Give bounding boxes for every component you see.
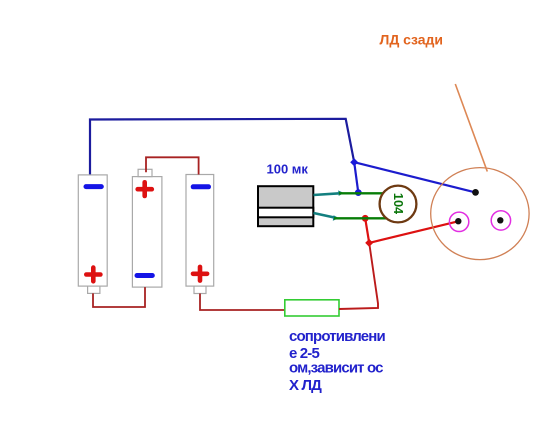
wire red node D to laser diode pin 1 (369, 221, 458, 243)
svg-text:104: 104 (391, 193, 406, 215)
capacitor C2 ceramic disc 104 (380, 186, 417, 223)
wire red resistor R1 to node D (339, 243, 378, 309)
battery BT3 (186, 175, 214, 294)
laser diode pin 1 (449, 212, 468, 231)
wire blue node A to node B (354, 162, 358, 192)
wire teal C1 positive lead (arrow) (314, 190, 345, 196)
node A (blue junction) (350, 158, 358, 166)
node D (red junction) (365, 239, 373, 247)
wire red BT1 plus to BT2 minus (bottom link) (93, 287, 145, 307)
battery BT1 (78, 175, 107, 294)
wire blue node A to laser diode case dot (354, 162, 475, 192)
wire red node D to node C (365, 218, 369, 243)
laser diode LD1 rear view case (431, 168, 529, 260)
capacitor C1 electrolytic body (258, 186, 313, 226)
node B (blue junction on green wire) (355, 189, 362, 196)
note resistor value text (289, 328, 385, 394)
wire blue from BT1 negative terminal up and across to node A (90, 119, 354, 175)
svg-text:ЛД сзади: ЛД сзади (380, 31, 444, 47)
resistor R1 (2-5 ohm) (285, 300, 339, 316)
svg-text:100 мк: 100 мк (267, 162, 309, 177)
callout line from label to laser diode (455, 84, 487, 172)
wire red BT3 plus down and right to resistor R1 (200, 294, 285, 311)
svg-text:сопротивлени: сопротивлени (289, 328, 385, 345)
battery BT2 (132, 169, 162, 287)
svg-text:Х ЛД: Х ЛД (289, 377, 322, 394)
svg-text:ом,зависит ос: ом,зависит ос (289, 360, 383, 377)
wire teal C1 negative lead (arrow) (314, 213, 340, 221)
laser diode pin 2 (491, 211, 510, 230)
laser diode case mark (blue wire end dot) (472, 189, 479, 196)
node C (red junction on green wire) (362, 215, 369, 222)
wire green node C across to C2 (bottom lead) (334, 217, 387, 219)
wire green node B across to C2 (top lead) (339, 192, 384, 194)
wire red BT2 plus to BT3 minus (top link) (146, 157, 199, 174)
